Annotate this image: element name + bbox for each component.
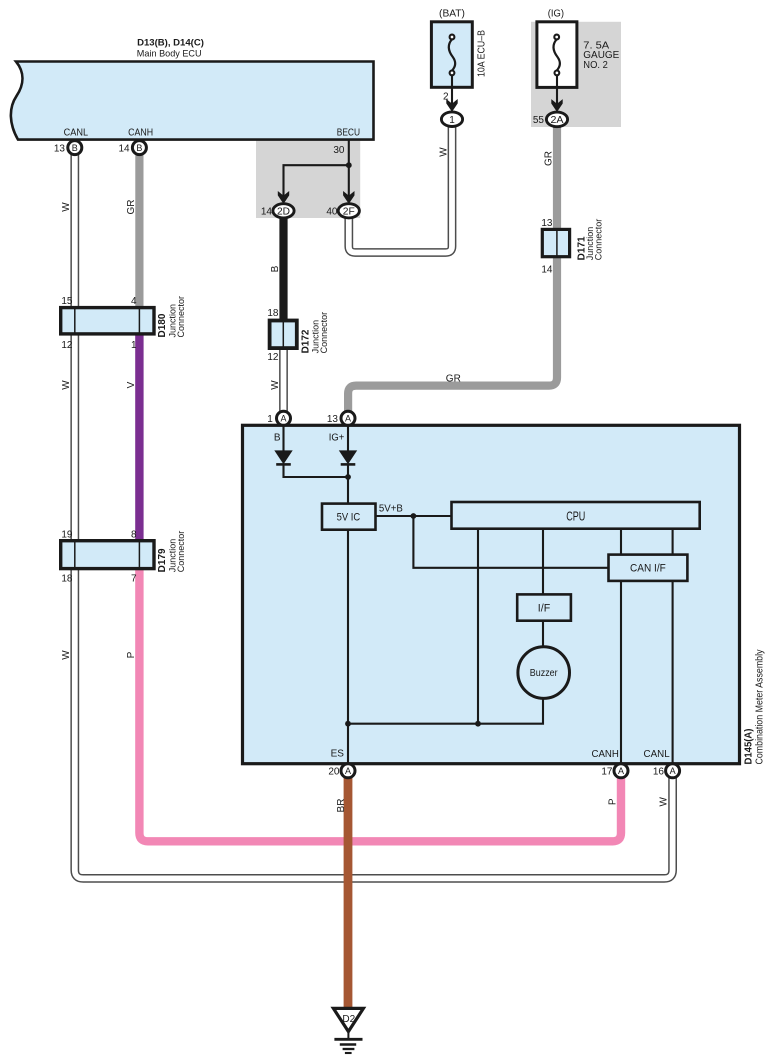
svg-text:14: 14	[541, 265, 553, 276]
svg-text:W: W	[61, 380, 72, 390]
svg-text:NO. 2: NO. 2	[583, 60, 608, 71]
svg-text:Main Body ECU: Main Body ECU	[137, 49, 202, 60]
svg-text:A: A	[618, 766, 624, 776]
svg-text:Connector: Connector	[319, 312, 329, 354]
arrow into terminal 1	[446, 99, 457, 112]
svg-text:(IG): (IG)	[548, 8, 564, 19]
terminal oval 2F	[326, 204, 359, 218]
ground symbol D2	[333, 1008, 363, 1053]
wire W CANL from ECU 13 to meter 16, white	[75, 151, 673, 878]
svg-text:Connector: Connector	[176, 296, 186, 338]
svg-text:8: 8	[131, 529, 137, 540]
svg-text:13: 13	[541, 218, 553, 229]
junction connector D180	[61, 296, 186, 351]
svg-text:CPU: CPU	[566, 509, 585, 523]
svg-text:I/F: I/F	[538, 602, 551, 614]
svg-text:2D: 2D	[277, 206, 290, 217]
junction ES x CPU line	[475, 721, 481, 727]
svg-text:Connector: Connector	[594, 219, 604, 261]
svg-text:55: 55	[533, 115, 545, 126]
diode D (IG+ side)	[339, 450, 357, 464]
svg-text:D145(A): D145(A)	[744, 729, 755, 765]
combination meter assembly D145(A) box	[243, 425, 740, 763]
shaded relay block panel (BECU 2D/2F area)	[256, 139, 360, 218]
svg-text:18: 18	[61, 573, 73, 584]
svg-text:Connector: Connector	[176, 531, 186, 573]
svg-text:W: W	[439, 147, 450, 157]
svg-text:BECU: BECU	[337, 127, 360, 138]
terminal 16 (A)	[653, 764, 680, 778]
svg-text:A: A	[345, 414, 351, 424]
wire 5V+B to CAN I/F	[413, 516, 608, 568]
svg-text:D2: D2	[342, 1014, 355, 1025]
svg-text:1: 1	[131, 340, 137, 351]
svg-text:A: A	[345, 766, 351, 776]
arrow into 2F	[343, 191, 354, 204]
terminal oval 2D	[261, 204, 294, 218]
svg-text:4: 4	[131, 296, 137, 307]
wire 5V IC to CPU (5V+B net)	[376, 515, 452, 517]
wire W from terminal 1 (BAT) to 2F, white	[349, 124, 452, 253]
junction ES x buzzer line	[345, 721, 351, 727]
CPU block	[452, 502, 700, 529]
node B lead from terminal 1	[282, 426, 284, 451]
svg-text:GR: GR	[544, 151, 555, 166]
svg-text:W: W	[61, 202, 72, 212]
svg-text:V: V	[126, 381, 137, 388]
svg-text:14: 14	[118, 143, 130, 154]
svg-text:5V IC: 5V IC	[337, 511, 361, 523]
wire ES vertical (5V IC to terminal 20)	[347, 530, 349, 764]
wire CAN I/F to terminal 16	[672, 581, 674, 764]
main body ECU D13(B)/D14(C) box	[11, 38, 374, 140]
svg-text:B: B	[72, 143, 78, 153]
svg-text:2F: 2F	[343, 206, 355, 217]
wire W from D172 to meter terminal 1, white	[279, 345, 288, 414]
svg-text:(BAT): (BAT)	[439, 8, 465, 19]
svg-text:CANL: CANL	[644, 749, 671, 760]
wire CAN I/F to terminal 17	[620, 581, 622, 764]
diode D (B side)	[274, 450, 292, 464]
junction connector D179	[61, 529, 186, 584]
svg-text:16: 16	[653, 767, 665, 778]
svg-text:A: A	[280, 414, 286, 424]
svg-text:W: W	[659, 797, 670, 807]
svg-text:17: 17	[601, 767, 613, 778]
svg-text:30: 30	[333, 145, 345, 156]
terminal 13 (B) of ECU	[54, 127, 89, 154]
svg-text:A: A	[670, 766, 676, 776]
svg-text:13: 13	[327, 414, 339, 425]
junction 5V+B	[411, 513, 417, 519]
svg-text:GR: GR	[126, 200, 137, 215]
svg-text:13: 13	[54, 143, 66, 154]
svg-text:12: 12	[267, 352, 279, 363]
svg-text:7: 7	[131, 573, 137, 584]
svg-text:19: 19	[61, 529, 73, 540]
svg-text:Combination Meter Assembly: Combination Meter Assembly	[754, 650, 765, 765]
wire CPU to I/F	[542, 529, 544, 595]
wire I/F to buzzer	[542, 621, 544, 648]
svg-text:P: P	[608, 798, 619, 805]
svg-text:W: W	[61, 650, 72, 660]
wire branch to 2D	[284, 165, 349, 201]
svg-text:2A: 2A	[551, 115, 564, 126]
wire diode IG+ to 5V IC	[347, 464, 349, 504]
junction at BECU branch	[346, 162, 352, 168]
svg-text:20: 20	[328, 767, 340, 778]
terminal 13 (A) into meter	[327, 411, 355, 425]
svg-text:40: 40	[326, 207, 338, 218]
wire from diode B to IG+ net	[284, 464, 349, 477]
svg-text:1: 1	[449, 115, 455, 126]
svg-text:CANH: CANH	[128, 127, 153, 138]
svg-text:1: 1	[267, 414, 273, 425]
svg-text:IG+: IG+	[329, 433, 345, 444]
terminal 17 (A)	[601, 764, 628, 778]
terminal 20 (A)	[328, 764, 355, 778]
svg-text:10A ECU–B: 10A ECU–B	[477, 30, 488, 77]
junction connector D172	[267, 308, 329, 363]
wire CPU to CAN I/F (right)	[672, 529, 674, 555]
svg-text:ES: ES	[331, 749, 345, 760]
svg-text:P: P	[126, 651, 137, 658]
svg-text:B: B	[274, 433, 281, 444]
svg-text:14: 14	[261, 207, 273, 218]
arrow into terminal 2A	[551, 99, 562, 112]
svg-text:D13(B), D14(C): D13(B), D14(C)	[137, 38, 204, 49]
svg-text:18: 18	[267, 308, 279, 319]
fuse 10A ECU-B (BAT)	[431, 8, 487, 87]
svg-text:CAN I/F: CAN I/F	[630, 563, 666, 575]
fuse lead wire (IG)	[556, 75, 558, 106]
5V IC block	[322, 504, 376, 530]
arrow into 2D	[278, 191, 289, 204]
wire P from D179 to meter terminal 17, pink	[139, 566, 621, 841]
fuse lead wire (BAT)	[451, 75, 453, 106]
wire CPU to ES net	[477, 529, 479, 724]
svg-text:BR: BR	[336, 799, 347, 813]
junction diode nets	[345, 474, 351, 480]
svg-text:12: 12	[61, 340, 73, 351]
terminal 1 (A) into meter	[267, 411, 290, 425]
CAN I/F block	[609, 555, 688, 581]
svg-text:B: B	[136, 143, 142, 153]
fuse 7.5A GAUGE NO.2 (IG)	[537, 8, 620, 87]
I/F block	[517, 594, 571, 620]
svg-text:CANL: CANL	[64, 127, 89, 138]
wire BR from meter terminal 20 to ground D2, brown	[344, 775, 353, 1009]
terminal 14 (B) of ECU	[118, 127, 153, 154]
buzzer	[518, 647, 570, 699]
wire CPU to CAN I/F (left)	[620, 529, 622, 555]
terminal oval 2A (IG fuse)	[533, 112, 568, 127]
svg-text:GR: GR	[446, 374, 461, 385]
wire GR from ECU 14 CANH to D180, gray	[135, 151, 143, 310]
svg-text:5V+B: 5V+B	[379, 504, 403, 515]
wire V from D180 to D179, violet	[135, 332, 143, 543]
wire GR from 2A fuse terminal to meter terminal 13, gray	[348, 124, 557, 414]
svg-text:B: B	[270, 265, 281, 272]
svg-text:15: 15	[61, 296, 73, 307]
svg-text:W: W	[270, 380, 281, 390]
node IG+ lead from terminal 13	[347, 426, 349, 451]
svg-text:CANH: CANH	[592, 749, 619, 760]
terminal oval 1 (BAT fuse)	[441, 112, 462, 127]
wire B from 2D to D172, black	[279, 212, 287, 324]
wire branch to 2F	[348, 165, 350, 201]
wire BECU 30 down from ECU	[348, 140, 350, 166]
junction connector D171	[541, 218, 603, 276]
svg-text:Buzzer: Buzzer	[530, 668, 558, 679]
shaded panel (IG fuse area)	[531, 22, 621, 127]
wire buzzer to ES net	[348, 698, 543, 723]
